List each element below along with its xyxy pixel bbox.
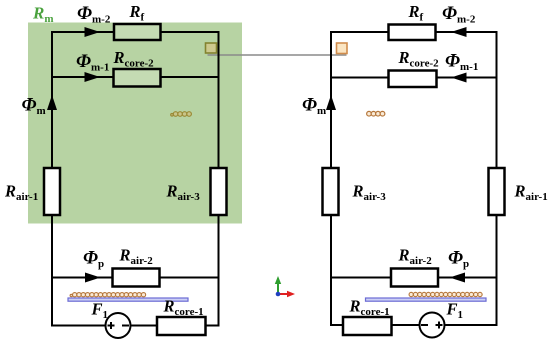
wire left vertical (left circuit) xyxy=(51,31,53,327)
resistor Rair-1 (left) xyxy=(44,168,60,215)
coil winding (right) xyxy=(409,292,482,296)
wire second row (left circuit) xyxy=(51,76,220,78)
wire right vertical (right circuit) xyxy=(496,31,498,326)
svg-text:Rcore-2: Rcore-2 xyxy=(398,48,440,70)
flux arrow phi-m (right, up-pointing) xyxy=(326,95,336,110)
label Rair-1 (right) xyxy=(514,182,548,204)
resistor Rf (left) xyxy=(114,24,161,40)
resistor Rair-2 (right) xyxy=(391,269,438,287)
resistor Rair-3 (left) xyxy=(211,168,227,215)
svg-text:Rf: Rf xyxy=(129,2,145,24)
wire bottom (right circuit) xyxy=(330,324,498,326)
resistor Rcore-1 (left) xyxy=(157,317,206,335)
label Rcore-1 (right) xyxy=(349,297,390,319)
svg-text:Φp: Φp xyxy=(83,248,104,271)
resistor Rair-3 (right) xyxy=(323,168,339,215)
wire bottom (left circuit) xyxy=(51,325,220,327)
wire left vertical (right circuit) xyxy=(330,31,332,326)
label phi-m-1 (right) xyxy=(445,51,478,74)
node marker right (square) xyxy=(337,43,348,54)
label Rair-1 (left) xyxy=(4,182,38,204)
label Rair-3 (left) xyxy=(166,182,201,204)
resistor Rcore-1 (right) xyxy=(343,317,392,335)
label Rm xyxy=(32,4,54,26)
label Rair-2 (left) xyxy=(119,246,154,268)
coordinate axes icon xyxy=(275,276,295,297)
flux arrow phi-p (right, left-pointing) xyxy=(450,273,466,283)
wire second row (right circuit) xyxy=(330,77,498,79)
label F1 (right) xyxy=(446,300,464,322)
label Rcore-1 (left) xyxy=(163,297,204,319)
svg-text:Rair-2: Rair-2 xyxy=(398,246,433,268)
resistor Rair-2 (left) xyxy=(113,269,160,287)
flux arrow phi-m-1 (left, right-pointing) xyxy=(85,72,101,82)
svg-text:Rair-2: Rair-2 xyxy=(119,246,154,268)
svg-text:Φm-1: Φm-1 xyxy=(445,51,478,74)
svg-text:Rair-3: Rair-3 xyxy=(352,182,387,204)
wire top (right circuit) xyxy=(330,31,498,33)
label Rf (left) xyxy=(129,2,145,24)
label phi-m-2 (left) xyxy=(77,3,111,26)
label F1 (left) xyxy=(91,300,109,322)
small coil marks (right) xyxy=(367,111,385,116)
node marker left (square) xyxy=(206,43,217,53)
svg-text:Φp: Φp xyxy=(448,248,469,271)
label Rcore-2 (right) xyxy=(398,48,440,70)
svg-text:Rf: Rf xyxy=(408,2,424,24)
svg-text:Φm: Φm xyxy=(302,95,326,118)
wire right vertical (left circuit) xyxy=(218,31,220,327)
wire phi-p row (left circuit) xyxy=(51,277,220,279)
MMF source F1 (left) xyxy=(106,313,131,338)
resistor Rair-1 (right) xyxy=(489,168,505,215)
label phi-p (left) xyxy=(83,248,104,271)
shaded region Rm xyxy=(28,23,242,224)
label phi-m-1 (left) xyxy=(76,51,109,74)
resistor Rf (right) xyxy=(389,25,436,41)
label Rair-2 (right) xyxy=(398,246,433,268)
flux arrow phi-m-2 (left, right-pointing) xyxy=(85,27,101,37)
small coil marks (left) xyxy=(171,112,192,117)
magnet bar (right) xyxy=(366,298,487,301)
label phi-m (right) xyxy=(302,95,326,118)
flux arrow phi-p (left, right-pointing) xyxy=(85,273,101,283)
node link line between squares xyxy=(208,54,347,56)
wire phi-p row (right circuit) xyxy=(330,277,498,279)
svg-text:Φm-2: Φm-2 xyxy=(77,3,111,26)
svg-text:Φm-2: Φm-2 xyxy=(442,3,476,26)
label phi-p (right) xyxy=(448,248,469,271)
label Rcore-2 (left) xyxy=(113,48,155,70)
flux arrow phi-m-2 (right, left-pointing) xyxy=(451,27,467,37)
flux arrow phi-m (left, up-pointing) xyxy=(47,95,57,110)
coil winding (left) xyxy=(70,293,146,297)
wire top (left circuit) xyxy=(51,31,220,33)
svg-text:Rair-1: Rair-1 xyxy=(514,182,548,204)
magnet bar (left) xyxy=(68,298,188,301)
svg-text:F1: F1 xyxy=(446,300,464,322)
resistor Rcore-2 (right) xyxy=(389,71,437,88)
label Rf (right) xyxy=(408,2,424,24)
label phi-m-2 (right) xyxy=(442,3,476,26)
flux arrow phi-m-1 (right, left-pointing) xyxy=(451,73,467,83)
svg-text:F1: F1 xyxy=(91,300,109,322)
MMF source F1 (right) xyxy=(420,313,445,338)
label Rair-3 (right) xyxy=(352,182,387,204)
resistor Rcore-2 (left) xyxy=(114,69,161,87)
svg-text:Rm: Rm xyxy=(32,4,54,26)
label phi-m (left) xyxy=(22,95,46,118)
